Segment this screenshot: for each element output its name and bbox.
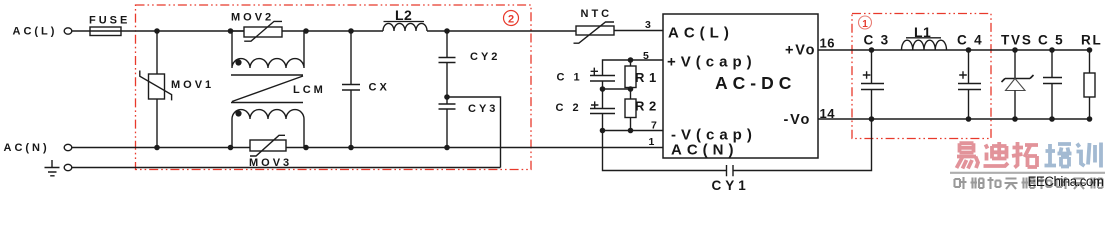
svg-text:FUSE: FUSE [89, 15, 130, 27]
svg-text:LCM: LCM [293, 84, 326, 96]
red dashed box 2 (EMI filter enclosure) [136, 5, 532, 170]
resistor RL [1089, 50, 1091, 73]
wire +Vo rail [818, 49, 1090, 51]
svg-text:AC(N): AC(N) [671, 142, 739, 159]
wire top rail [72, 30, 244, 32]
wire earth line [72, 167, 501, 169]
capacitor C1 [590, 76, 615, 82]
red dashed box 1 (output filter enclosure) [852, 14, 991, 139]
svg-text:AC(L): AC(L) [668, 25, 734, 42]
label L2 underline [384, 21, 425, 23]
wire -Vo rail [818, 118, 1090, 120]
resistor R1 [630, 60, 632, 66]
circled 2 label [504, 11, 519, 26]
circled 1 label [859, 16, 872, 29]
capacitor C5 [1051, 50, 1053, 78]
svg-text:MOV2: MOV2 [231, 12, 274, 24]
watermark divider line [950, 172, 1105, 174]
svg-text:AC(N): AC(N) [4, 142, 50, 154]
fuse F1 [90, 27, 121, 36]
watermark logo text row 1 pink part [957, 142, 1039, 169]
label L1 underline [906, 37, 941, 39]
wire CY1 path [603, 119, 872, 171]
svg-text:7: 7 [651, 120, 657, 132]
svg-text:EEChina.com: EEChina.com [1028, 174, 1104, 189]
inductor L1 [902, 40, 947, 50]
svg-text:C 4: C 4 [957, 33, 983, 48]
svg-text:-Vo: -Vo [784, 112, 812, 128]
svg-text:CY2: CY2 [470, 51, 500, 63]
capacitor C4 [968, 50, 970, 84]
svg-text:1: 1 [862, 19, 868, 30]
svg-text:R 2: R 2 [635, 99, 657, 114]
svg-text:AC-DC: AC-DC [715, 73, 796, 93]
svg-text:MOV3: MOV3 [249, 157, 292, 169]
thermistor NTC [576, 26, 614, 35]
svg-text:C 2: C 2 [556, 102, 582, 114]
capacitor CX [350, 31, 352, 85]
svg-text:1: 1 [649, 136, 655, 148]
svg-text:AC(L): AC(L) [13, 26, 58, 38]
svg-text:5: 5 [643, 50, 649, 62]
terminal AC(L) [64, 28, 72, 34]
wire mid divider [603, 88, 631, 90]
svg-text:MOV1: MOV1 [171, 79, 214, 91]
capacitor CY2 [446, 31, 448, 58]
svg-text:+V(cap): +V(cap) [667, 54, 757, 71]
svg-text:CX: CX [369, 82, 390, 94]
terminal AC(N) [64, 144, 72, 150]
svg-text:2: 2 [508, 14, 514, 26]
svg-text:TVS: TVS [1001, 33, 1033, 48]
varistor MOV3 [250, 140, 286, 151]
svg-text:C 1: C 1 [557, 72, 583, 84]
common mode choke LCM bottom winding [232, 110, 304, 148]
watermark logo text row 1 blue part [1045, 143, 1102, 168]
svg-text:R 1: R 1 [635, 70, 657, 85]
inductor L2 [383, 23, 427, 31]
common mode choke LCM top winding [232, 31, 304, 68]
common mode choke LCM core [231, 75, 303, 103]
wire Y-cap midpoint to earth [447, 97, 501, 168]
capacitor CY1 [727, 165, 734, 176]
diode TVS [1014, 50, 1016, 79]
svg-text:14: 14 [820, 106, 836, 121]
wire pin5 stub [603, 60, 664, 76]
svg-text:+Vo: +Vo [785, 43, 816, 59]
svg-text:CY1: CY1 [712, 178, 750, 193]
ground symbol [45, 160, 60, 176]
AC-DC converter U1 [663, 14, 818, 158]
capacitor C2 [602, 89, 604, 109]
resistor R2 [630, 89, 632, 99]
svg-text:3: 3 [645, 19, 651, 31]
capacitor CY3 [446, 97, 448, 104]
wire pin7 stub [603, 130, 664, 132]
svg-text:C 5: C 5 [1038, 33, 1064, 48]
varistor MOV2 [231, 30, 245, 32]
varistor MOV1 [156, 31, 158, 74]
terminal earth [64, 164, 72, 170]
svg-text:NTC: NTC [581, 8, 613, 20]
capacitor C3 [871, 50, 873, 84]
svg-text:L2: L2 [395, 7, 412, 23]
svg-text:RL: RL [1081, 33, 1103, 48]
svg-text:CY3: CY3 [468, 103, 498, 115]
wire bottom rail AC(N) [72, 147, 250, 149]
svg-text:16: 16 [820, 36, 835, 51]
svg-text:C 3: C 3 [864, 33, 890, 48]
